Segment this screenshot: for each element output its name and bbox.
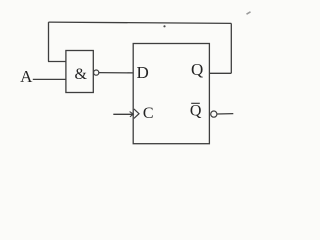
gate U1 inversion bubble: [94, 70, 99, 75]
wire Qbar output: [217, 113, 233, 115]
svg-text:D: D: [137, 63, 149, 82]
gate U1 NAND body: [66, 51, 93, 93]
flip-flop Qbar inversion bubble: [211, 111, 217, 117]
svg-text:C: C: [143, 105, 154, 122]
flip-flop U2 body: [133, 44, 209, 144]
clock arrowhead: [130, 112, 134, 117]
wire clock input C: [113, 113, 133, 115]
wire feedback right vertical: [230, 23, 232, 73]
wire feedback left vertical: [48, 22, 50, 61]
svg-text:&: &: [74, 66, 87, 83]
speck smudge: [247, 12, 251, 14]
pin Qbar overline: [191, 102, 200, 104]
svg-text:Q: Q: [191, 60, 203, 79]
speck dot: [163, 25, 165, 27]
wire gate top input: [48, 61, 67, 63]
wire input A: [33, 78, 67, 80]
wire gate output to D: [99, 72, 133, 74]
wire Q output: [209, 72, 231, 74]
wire feedback top: [49, 22, 232, 23]
clock edge wedge: [134, 109, 139, 119]
svg-text:A: A: [20, 67, 33, 86]
svg-text:Q: Q: [190, 103, 202, 120]
